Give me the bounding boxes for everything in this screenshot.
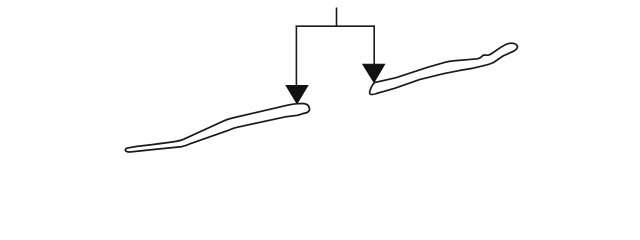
callout bracket horizontal bar [296, 25, 375, 27]
right arrowhead [362, 64, 385, 83]
right arrow shaft [373, 25, 375, 65]
callout leader stub (top center) [336, 8, 338, 27]
left arrowhead [286, 85, 309, 104]
left arrow shaft [295, 25, 297, 86]
left molding strip [125, 103, 309, 151]
right molding strip [370, 43, 518, 94]
